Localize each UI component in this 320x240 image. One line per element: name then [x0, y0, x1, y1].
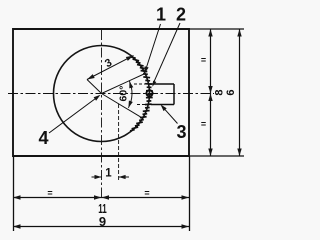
leader 3: [163, 107, 178, 123]
svg-text:1: 1: [156, 5, 166, 25]
radius dim line: [87, 56, 134, 80]
dim 11 center arrow right: [102, 195, 110, 199]
horizontal centerline: [8, 93, 214, 95]
tab top edge: [149, 83, 174, 85]
svg-text:8: 8: [213, 89, 225, 95]
dim 6 arrow bottom: [237, 149, 241, 157]
leader 2: [153, 23, 180, 85]
dim 8 line: [210, 29, 212, 156]
dim 6 line: [239, 29, 241, 156]
dim 11 center arrow left: [94, 195, 102, 199]
leader 1: [146, 24, 161, 70]
dim 9 line: [13, 226, 189, 228]
svg-text:=: =: [47, 188, 52, 198]
dim 9 arrow left: [13, 224, 21, 228]
angle arc: [128, 81, 132, 108]
dim 8 center arrow upper: [208, 86, 212, 94]
leader 4: [49, 97, 98, 133]
svg-text:9: 9: [99, 214, 106, 229]
extension line bottom right: [189, 155, 244, 157]
angle arc arrow lower: [128, 101, 132, 108]
svg-text:=: =: [201, 55, 206, 65]
radius dim arrow inner: [87, 74, 95, 79]
radius dim arrow outer: [126, 56, 134, 61]
leader 3 arrow: [161, 105, 167, 112]
extension line top right: [189, 28, 244, 30]
svg-text:3: 3: [176, 122, 186, 142]
dim 11 arrow left: [13, 195, 21, 199]
angle arc arrow upper: [129, 81, 133, 88]
dim 1 arrow right: [119, 175, 126, 179]
leader 4 arrow: [94, 95, 101, 101]
svg-text:2: 2: [176, 5, 186, 25]
plate outline: [13, 29, 189, 156]
angle side lower: [102, 94, 143, 119]
leader 1 arrow: [145, 66, 149, 73]
dim 8 arrow bottom: [208, 149, 212, 157]
leader 2 arrow: [152, 81, 156, 87]
tab hidden bottom edge: [137, 104, 151, 106]
svg-text:4: 4: [38, 128, 48, 148]
extension line left lower: [13, 156, 15, 231]
extension line node: [118, 104, 120, 182]
dim 1 arrow left: [95, 175, 102, 179]
dim 6 arrow top: [237, 29, 241, 37]
dim 1 line right: [119, 176, 129, 178]
extension line right lower: [189, 156, 191, 231]
wheel circle: [54, 46, 150, 142]
radius dim dogleg: [87, 80, 102, 94]
svg-text:60°: 60°: [117, 86, 129, 102]
dim 8 arrow top: [208, 29, 212, 37]
dim 1 line left: [92, 176, 102, 178]
svg-text:6: 6: [225, 89, 237, 95]
tab bottom edge: [151, 104, 174, 106]
svg-text:1: 1: [105, 168, 112, 180]
pin circle: [146, 90, 152, 96]
dim 9 arrow right: [182, 224, 190, 228]
dim 11 line: [13, 197, 189, 199]
svg-text:=: =: [144, 188, 149, 198]
vertical centerline: [101, 30, 103, 199]
knurl band: [130, 57, 153, 131]
tab right edge: [173, 84, 175, 105]
angle side upper: [102, 74, 146, 94]
svg-text:=: =: [201, 119, 206, 129]
dim 8 center arrow lower: [208, 94, 212, 102]
dim 11 arrow right: [182, 195, 190, 199]
tab hidden top edge: [134, 83, 149, 85]
